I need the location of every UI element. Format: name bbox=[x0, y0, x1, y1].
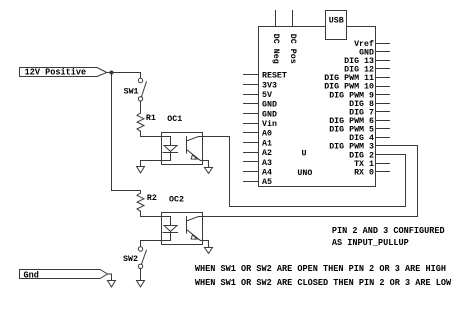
svg-text:SW2: SW2 bbox=[123, 255, 138, 264]
pin DC Pos (top) bbox=[288, 11, 297, 64]
svg-text:3V3: 3V3 bbox=[262, 81, 277, 90]
svg-text:USB: USB bbox=[329, 17, 344, 26]
svg-text:R1: R1 bbox=[146, 114, 156, 123]
net flag 12V Positive bbox=[20, 67, 107, 77]
wire OC2 LED cathode to SW2 bbox=[141, 241, 162, 247]
wire R1 bottom to OC1 LED input bbox=[141, 136, 162, 138]
svg-text:RESET: RESET bbox=[262, 72, 287, 81]
svg-text:A0: A0 bbox=[262, 130, 272, 139]
svg-text:A1: A1 bbox=[262, 139, 272, 148]
svg-text:AS INPUT_PULLUP: AS INPUT_PULLUP bbox=[332, 238, 409, 248]
svg-text:U: U bbox=[302, 149, 307, 158]
resistor R1 bbox=[137, 113, 156, 137]
ground (Gnd flag) bbox=[108, 281, 116, 287]
svg-text:RX 0: RX 0 bbox=[354, 168, 374, 177]
ground (OC2 emitter) bbox=[205, 248, 213, 254]
wire 12V flag tip to SW1 top bbox=[107, 73, 141, 79]
ground (OC1 LED) bbox=[137, 167, 145, 173]
node junction dot bbox=[110, 71, 114, 75]
svg-text:A3: A3 bbox=[262, 159, 272, 168]
ground (OC1 emitter) bbox=[205, 168, 213, 174]
annotation note pins configured bbox=[332, 226, 445, 248]
wire OC1 emitter to ground bbox=[201, 161, 209, 168]
svg-text:GND: GND bbox=[262, 101, 277, 110]
wire 12V vertical rail down to R2 bbox=[112, 73, 141, 194]
svg-text:WHEN SW1 OR SW2 ARE CLOSED THE: WHEN SW1 OR SW2 ARE CLOSED THEN PIN 2 OR… bbox=[195, 278, 452, 288]
annotation note switch behaviour bbox=[195, 264, 452, 288]
svg-text:PIN 2 AND 3 CONFIGURED: PIN 2 AND 3 CONFIGURED bbox=[332, 226, 445, 236]
svg-text:Gnd: Gnd bbox=[23, 270, 38, 280]
USB connector box bbox=[326, 11, 347, 40]
wire OC2 emitter to ground bbox=[201, 241, 209, 248]
wire SW2 bottom to ground bbox=[140, 269, 142, 281]
svg-text:12V Positive: 12V Positive bbox=[25, 67, 86, 77]
svg-text:A5: A5 bbox=[262, 178, 272, 187]
svg-text:Vref: Vref bbox=[354, 39, 374, 49]
svg-text:DC Neg: DC Neg bbox=[271, 34, 280, 64]
optocoupler OC2 bbox=[162, 196, 203, 245]
wire SW1 bottom to R1 top bbox=[140, 101, 142, 113]
left pins RESET..A5 bbox=[244, 75, 259, 182]
svg-text:OC1: OC1 bbox=[167, 115, 182, 124]
optocoupler OC1 bbox=[162, 115, 203, 165]
svg-text:WHEN SW1 OR SW2 ARE OPEN THEN: WHEN SW1 OR SW2 ARE OPEN THEN PIN 2 OR 3… bbox=[195, 264, 446, 274]
Arduino UNO body U bbox=[259, 27, 376, 187]
switch SW2 bbox=[123, 247, 146, 269]
svg-text:R2: R2 bbox=[147, 194, 157, 203]
svg-text:5V: 5V bbox=[262, 91, 272, 100]
svg-text:A4: A4 bbox=[262, 169, 272, 178]
svg-text:GND: GND bbox=[262, 110, 277, 119]
wire OC2 collector to Arduino DIG PWM 3 bbox=[199, 146, 418, 217]
wire R2 bottom to OC2 LED input bbox=[141, 216, 162, 218]
svg-text:A2: A2 bbox=[262, 149, 272, 158]
svg-text:Vin: Vin bbox=[262, 119, 277, 129]
svg-text:DC Pos: DC Pos bbox=[288, 34, 297, 64]
right pins Vref..RX0 bbox=[376, 44, 390, 172]
svg-text:SW1: SW1 bbox=[124, 88, 139, 97]
svg-text:UNO: UNO bbox=[297, 169, 312, 178]
ground (SW2) bbox=[137, 281, 145, 287]
wire OC1 collector to Arduino DIG 2 bbox=[199, 137, 406, 207]
net flag Gnd bbox=[20, 270, 108, 281]
svg-text:OC2: OC2 bbox=[169, 196, 184, 205]
resistor R2 bbox=[137, 193, 157, 217]
wire OC1 LED cathode to ground bbox=[141, 161, 162, 167]
pin DC Neg (top) bbox=[271, 11, 280, 64]
wire Gnd flag to ground bbox=[108, 274, 112, 281]
switch SW1 bbox=[124, 78, 147, 101]
